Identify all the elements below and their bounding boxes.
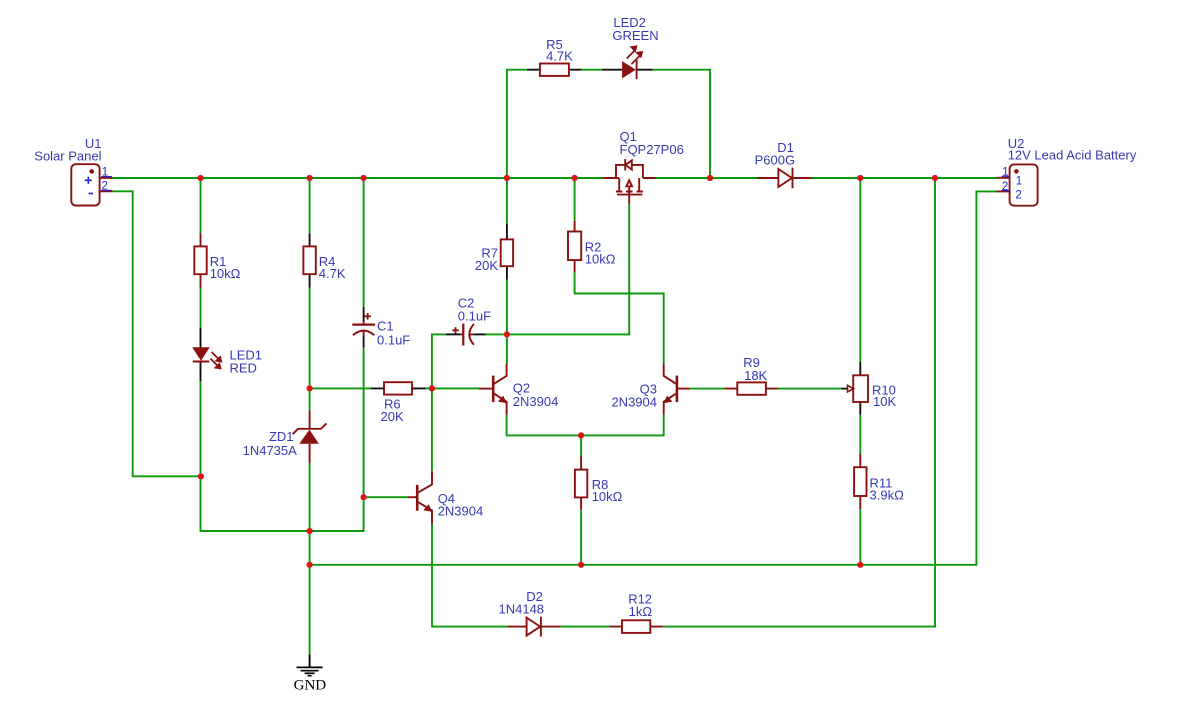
- wire U1 pin2 route down and right: [113, 191, 201, 476]
- resistor R8: [575, 457, 587, 510]
- connector U1: [71, 164, 112, 205]
- svg-text:C1: C1: [377, 319, 394, 334]
- wire ground row to U2 pin2 riser: [310, 191, 997, 564]
- svg-text:10kΩ: 10kΩ: [210, 266, 241, 281]
- wire main bus left segment y=178: [113, 177, 603, 179]
- resistor R2: [568, 221, 581, 273]
- node emitter row / R8: [578, 432, 584, 438]
- LED LED2: [602, 45, 652, 79]
- wire main bus right segment y=178: [656, 177, 997, 179]
- wire R2 column bus to R2: [574, 178, 576, 221]
- LED LED1: [192, 328, 222, 382]
- wire R9 to R10 wiper: [778, 388, 841, 390]
- svg-text:RED: RED: [230, 361, 257, 376]
- svg-text:12V Lead Acid Battery: 12V Lead Acid Battery: [1008, 147, 1137, 162]
- resistor R9: [725, 382, 779, 394]
- wire between R5 and LED2: [581, 69, 602, 71]
- svg-text:10K: 10K: [873, 394, 896, 409]
- wire Q3 base to R9: [690, 388, 725, 390]
- svg-text:GREEN: GREEN: [612, 28, 658, 43]
- wire R8 bottom to ground row: [580, 510, 582, 565]
- svg-text:2N3904: 2N3904: [611, 394, 657, 409]
- transistor Q3: [663, 363, 690, 415]
- resistor R7: [501, 224, 513, 280]
- node R6 row / C2 riser: [429, 385, 435, 391]
- wire C1 column bus to C1: [363, 178, 365, 307]
- svg-text:10kΩ: 10kΩ: [585, 252, 616, 267]
- svg-text:2: 2: [101, 181, 107, 193]
- svg-text:Solar Panel: Solar Panel: [34, 148, 101, 163]
- wire R6 row: [310, 387, 479, 389]
- MOSFET Q1: [603, 159, 656, 204]
- svg-text:0.1uF: 0.1uF: [458, 309, 491, 324]
- diode D2: [507, 617, 560, 637]
- svg-text:1N4735A: 1N4735A: [243, 443, 298, 458]
- wire R1 to LED1: [200, 288, 202, 328]
- node ground row / GND stem: [307, 562, 313, 568]
- node Q4 base: [361, 494, 367, 500]
- capacitor C1: [352, 307, 375, 348]
- node pin2 route / LED1 column: [198, 473, 204, 479]
- svg-text:2N3904: 2N3904: [513, 394, 559, 409]
- svg-text:FQP27P06: FQP27P06: [620, 142, 684, 157]
- svg-text:2: 2: [1015, 189, 1021, 201]
- transistor Q4: [407, 471, 432, 524]
- resistor R1: [194, 233, 206, 287]
- wire R10 column bus to R10: [859, 178, 861, 362]
- node ground row / R11: [857, 562, 863, 568]
- node bus-R4: [307, 175, 313, 181]
- wire LED1 to junction and down to bottom row: [201, 347, 364, 531]
- svg-text:1: 1: [1002, 167, 1008, 179]
- diode D1: [757, 168, 811, 189]
- svg-text:GND: GND: [294, 677, 327, 693]
- svg-text:3.9kΩ: 3.9kΩ: [870, 488, 905, 503]
- transistor Q2: [479, 363, 507, 415]
- node bus-R2: [572, 175, 578, 181]
- resistor R11: [854, 454, 866, 509]
- node C2 row / R7 column: [504, 331, 510, 337]
- wire R2 bottom jog to Q3 collector: [575, 272, 664, 363]
- node bus-R1: [197, 175, 203, 181]
- wire ZD1 to GND stem: [309, 463, 311, 654]
- wire LED2 to right riser down to bus: [653, 70, 711, 178]
- wire Q2 emitter to common emitter row to Q3 emitter: [507, 415, 664, 436]
- resistor R12: [609, 620, 662, 633]
- wire Q4 base from junction: [364, 496, 408, 498]
- node bus-R12 riser: [932, 175, 938, 181]
- wire R4 to ZD1: [309, 288, 311, 411]
- wire R4 column bus to R4: [309, 178, 311, 233]
- wire R1 column bus to R1: [200, 178, 202, 233]
- capacitor C2: [446, 324, 486, 346]
- svg-text:4.7K: 4.7K: [319, 266, 346, 281]
- node bus-R7: [504, 175, 510, 181]
- connector U2: [997, 164, 1038, 205]
- wire C2 row junction to Q1 gate column: [486, 204, 630, 334]
- wire R8 top from emitter row: [580, 435, 582, 456]
- wire R10 to R11: [859, 415, 861, 454]
- zener diode ZD1: [293, 410, 327, 463]
- svg-text:18K: 18K: [744, 368, 767, 383]
- svg-text:P600G: P600G: [755, 152, 795, 167]
- svg-text:1: 1: [102, 167, 108, 179]
- wire R7 to C2 row to Q2 collector: [506, 280, 508, 364]
- svg-text:20K: 20K: [475, 258, 498, 273]
- svg-text:1kΩ: 1kΩ: [629, 604, 653, 619]
- resistor R5: [527, 64, 582, 76]
- svg-text:4.7K: 4.7K: [546, 49, 573, 64]
- node ZD1 bottom row: [307, 528, 313, 534]
- svg-text:1: 1: [1016, 175, 1022, 187]
- svg-text:20K: 20K: [381, 409, 404, 424]
- wire R12 right riser up to bus: [663, 178, 935, 627]
- resistor R6: [371, 382, 426, 394]
- wire R5 top loop left riser: [507, 70, 527, 178]
- wire R7 column bus to R7: [506, 178, 508, 224]
- node bus-C1: [361, 175, 367, 181]
- node ground row / R8: [578, 562, 584, 568]
- node bus-LED2 riser: [707, 175, 713, 181]
- resistor R4: [303, 233, 315, 287]
- wire R11 to ground row: [859, 509, 861, 565]
- wire C2 left corner down to Q4 collector: [432, 334, 446, 471]
- svg-text:0.1uF: 0.1uF: [377, 333, 410, 348]
- svg-text:2N3904: 2N3904: [438, 504, 484, 519]
- wire Q4 emitter down to D2 row: [432, 524, 507, 626]
- node bus-R10: [857, 175, 863, 181]
- svg-text:2: 2: [1002, 181, 1008, 193]
- potentiometer R10: [841, 362, 868, 415]
- svg-text:ZD1: ZD1: [269, 429, 294, 444]
- ground symbol: [297, 654, 323, 675]
- svg-text:1N4148: 1N4148: [499, 601, 545, 616]
- svg-text:10kΩ: 10kΩ: [592, 489, 623, 504]
- node R6 row left: [307, 385, 313, 391]
- wire D2 to R12: [561, 626, 610, 628]
